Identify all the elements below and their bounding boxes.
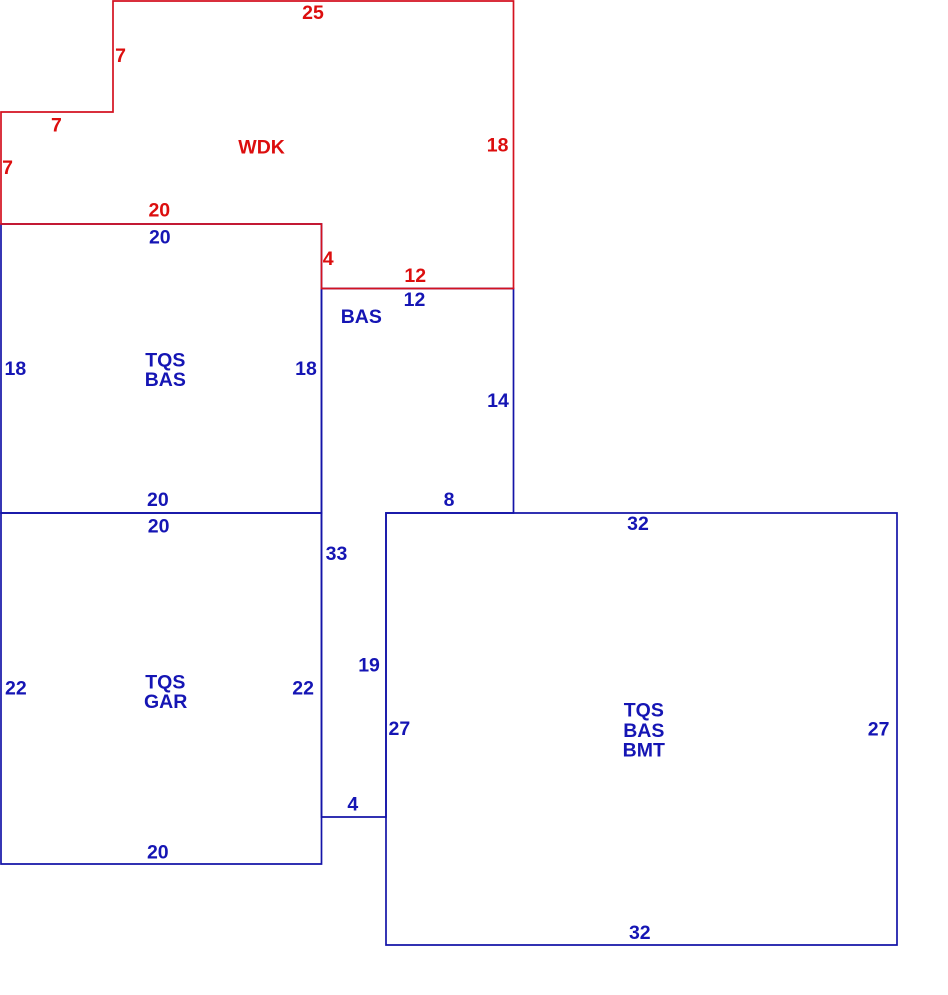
svg-text:TQS: TQS bbox=[624, 700, 664, 722]
svg-text:25: 25 bbox=[302, 2, 324, 24]
svg-text:12: 12 bbox=[404, 289, 426, 311]
svg-text:18: 18 bbox=[487, 134, 509, 156]
svg-text:8: 8 bbox=[444, 489, 455, 511]
svg-text:GAR: GAR bbox=[144, 691, 187, 713]
svg-text:BAS: BAS bbox=[145, 369, 186, 391]
svg-text:27: 27 bbox=[389, 718, 411, 740]
svg-text:20: 20 bbox=[147, 489, 169, 511]
svg-text:BAS: BAS bbox=[623, 720, 664, 742]
svg-text:27: 27 bbox=[868, 718, 890, 740]
svg-text:4: 4 bbox=[323, 248, 334, 270]
area TQS BAS outline bbox=[1, 224, 322, 513]
svg-text:BMT: BMT bbox=[623, 740, 665, 762]
svg-text:WDK: WDK bbox=[238, 137, 285, 159]
area WDK outline (red deck) bbox=[1, 1, 514, 289]
svg-text:7: 7 bbox=[51, 114, 62, 136]
svg-text:4: 4 bbox=[347, 794, 358, 816]
area TQS GAR outline bbox=[1, 513, 322, 864]
svg-text:22: 22 bbox=[292, 677, 314, 699]
svg-text:14: 14 bbox=[487, 390, 509, 412]
svg-text:18: 18 bbox=[5, 358, 27, 380]
svg-text:20: 20 bbox=[149, 227, 171, 249]
svg-text:20: 20 bbox=[148, 199, 170, 221]
svg-text:BAS: BAS bbox=[341, 306, 382, 328]
svg-text:33: 33 bbox=[326, 543, 348, 565]
svg-text:19: 19 bbox=[358, 655, 380, 677]
svg-text:32: 32 bbox=[627, 513, 649, 535]
svg-text:32: 32 bbox=[629, 922, 651, 944]
svg-text:22: 22 bbox=[5, 677, 27, 699]
svg-text:20: 20 bbox=[148, 515, 170, 537]
area TQS BAS BMT outline bbox=[386, 513, 897, 945]
svg-text:18: 18 bbox=[295, 358, 317, 380]
area BAS strip outline bbox=[322, 289, 514, 818]
svg-text:TQS: TQS bbox=[145, 671, 185, 693]
svg-text:12: 12 bbox=[404, 265, 426, 287]
svg-text:7: 7 bbox=[115, 45, 126, 67]
svg-text:20: 20 bbox=[147, 841, 169, 863]
svg-text:7: 7 bbox=[2, 157, 13, 179]
